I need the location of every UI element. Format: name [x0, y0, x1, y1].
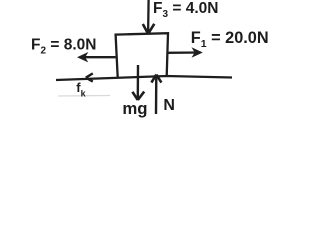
svg-text:N: N — [163, 97, 175, 114]
mg arrowhead — [132, 92, 144, 100]
friction arrowhead fk (on surface line, pointing left) — [86, 73, 93, 81]
F1 arrowhead — [192, 47, 203, 57]
wire: F1 arrow shaft — [167, 51, 200, 54]
wire: mg arrow shaft — [137, 65, 140, 99]
svg-text:mg: mg — [122, 99, 147, 118]
wire: F2 arrow shaft — [80, 56, 116, 58]
wire: N arrow shaft — [155, 75, 158, 114]
wire: F3 arrow shaft — [147, 0, 150, 33]
ground surface line — [56, 76, 232, 80]
box (block) — [116, 33, 168, 77]
F2 arrowhead — [77, 52, 88, 62]
F3 arrowhead — [143, 24, 155, 34]
faint scan streak — [58, 95, 110, 98]
N arrowhead — [151, 75, 161, 83]
